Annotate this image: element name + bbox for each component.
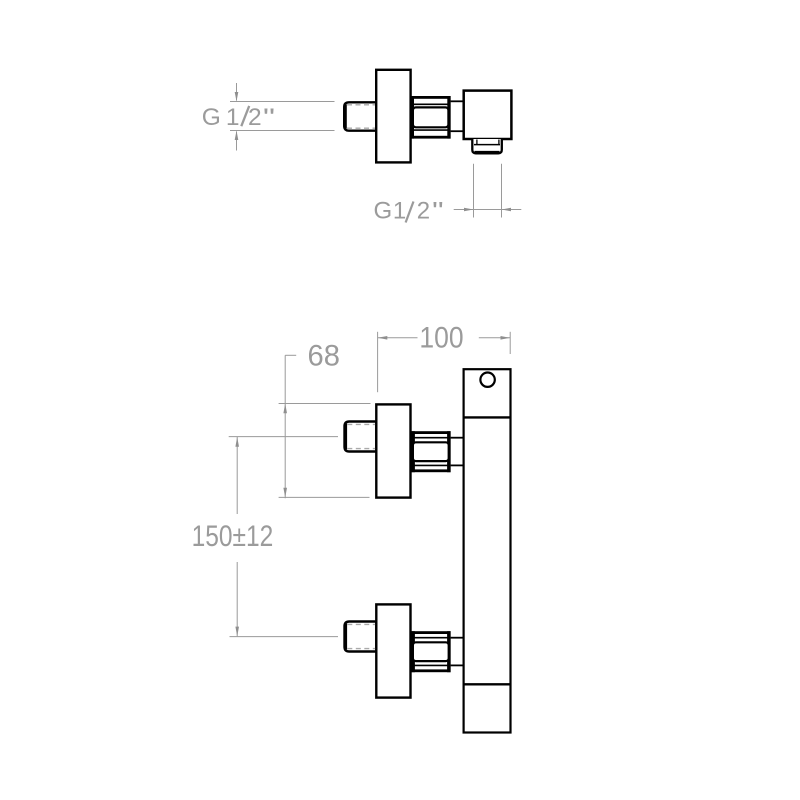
- svg-text:150±12: 150±12: [192, 520, 274, 553]
- svg-text:2: 2: [248, 104, 262, 131]
- svg-text:": ": [432, 198, 444, 225]
- svg-text:2: 2: [417, 198, 430, 225]
- svg-text:100: 100: [419, 322, 463, 355]
- svg-text:": ": [263, 104, 275, 131]
- svg-text:1: 1: [393, 198, 406, 225]
- svg-text:68: 68: [308, 340, 340, 373]
- svg-text:1: 1: [226, 104, 240, 131]
- svg-text:G: G: [374, 198, 393, 225]
- svg-text:G: G: [202, 104, 221, 131]
